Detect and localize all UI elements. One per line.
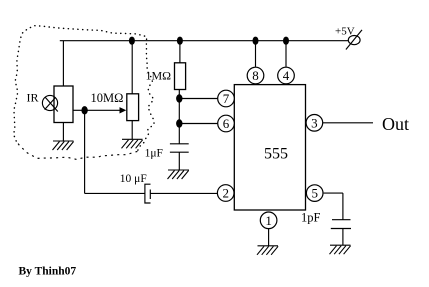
svg-text:1pF: 1pF [301, 210, 321, 224]
svg-text:1MΩ: 1MΩ [146, 68, 172, 82]
svg-text:2: 2 [222, 186, 229, 201]
svg-text:3: 3 [311, 115, 318, 130]
svg-text:555: 555 [264, 146, 288, 163]
svg-text:7: 7 [223, 91, 230, 106]
svg-text:4: 4 [283, 68, 290, 83]
svg-text:10 μF: 10 μF [120, 173, 147, 185]
svg-text:By Thinh07: By Thinh07 [19, 266, 77, 278]
svg-text:6: 6 [223, 116, 230, 131]
svg-text:+5V: +5V [335, 25, 355, 37]
svg-text:5: 5 [311, 186, 318, 201]
svg-text:Out: Out [382, 114, 409, 134]
svg-text:8: 8 [252, 68, 259, 83]
svg-text:10MΩ: 10MΩ [91, 91, 124, 105]
svg-text:IR: IR [27, 90, 39, 104]
svg-text:1μF: 1μF [145, 147, 163, 159]
svg-text:1: 1 [265, 213, 272, 228]
